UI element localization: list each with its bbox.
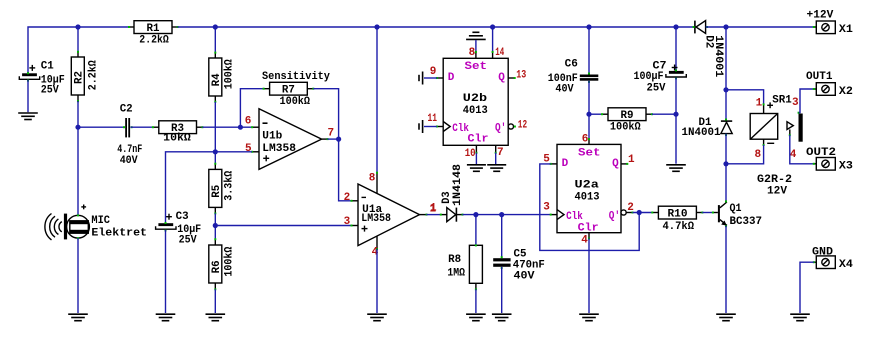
svg-text:12V: 12V [767, 186, 787, 198]
capacitor C3 [156, 211, 202, 247]
wire pin9 ground [424, 77, 437, 79]
svg-text:1MΩ: 1MΩ [447, 267, 465, 279]
svg-text:Clr: Clr [468, 134, 489, 146]
wire R6 to ground [214, 289, 216, 313]
wire U2b pin14 from rail [492, 27, 494, 52]
ground under Q1 [716, 314, 736, 321]
wire node to ground [675, 114, 677, 164]
svg-text:U1b: U1b [262, 131, 282, 143]
svg-text:6: 6 [582, 134, 589, 146]
ground under R6 [206, 314, 226, 321]
ground under C3 [156, 314, 176, 321]
svg-text:11: 11 [428, 113, 438, 125]
svg-text:R10: R10 [668, 208, 688, 220]
wire C6 to node [588, 81, 590, 115]
svg-text:X2: X2 [839, 86, 853, 98]
terminal X1 +12V [807, 10, 854, 36]
diode D2 [693, 21, 725, 78]
svg-text:G2R-2: G2R-2 [757, 174, 792, 186]
node rail-D2-relay branch [723, 24, 728, 29]
svg-text:25V: 25V [179, 234, 197, 246]
node D3/C5 [499, 212, 504, 217]
wire R5 to node [214, 213, 216, 239]
wire R3 to U1b pin6 (crosses R4-R5 column) [202, 126, 252, 128]
wire R4 top [214, 27, 216, 53]
wire top rail right segment [706, 26, 814, 28]
svg-text:100kΩ: 100kΩ [610, 122, 641, 134]
svg-text:MIC: MIC [91, 215, 110, 227]
svg-text:13: 13 [516, 69, 526, 81]
terminal X4 GND [812, 246, 853, 271]
svg-text:X1: X1 [839, 24, 853, 36]
svg-text:R8: R8 [448, 254, 461, 266]
resistor R3 [152, 121, 204, 145]
svg-text:R9: R9 [621, 110, 634, 122]
svg-text:8: 8 [469, 47, 476, 59]
wire U2b pin7 to ground [495, 153, 497, 164]
resistor R2 [71, 51, 99, 102]
node relay coil - / Q1 collector [723, 161, 728, 166]
diode D1 [682, 117, 733, 139]
transistor Q1 BC337 [712, 200, 762, 228]
wire D1 to node [725, 134, 727, 164]
ground under C7 [666, 165, 686, 172]
wire R4 bottom to R5 (crosses R3 wire) [214, 102, 216, 164]
wire top rail left segment [28, 27, 129, 73]
node relay coil + [723, 87, 728, 92]
svg-text:Set: Set [578, 147, 601, 159]
wire C3 to ground [165, 230, 167, 313]
svg-text:2: 2 [344, 192, 351, 204]
svg-text:4013: 4013 [463, 105, 488, 117]
svg-text:Sensitivity: Sensitivity [262, 71, 330, 83]
wire U2a pin4 Clr to ground (crosses feedback) [588, 238, 590, 313]
ground at U2b pin9 (rotated) [419, 72, 423, 85]
ground under U1a [367, 314, 387, 321]
svg-text:3: 3 [543, 201, 550, 213]
svg-text:U2b: U2b [463, 93, 488, 105]
svg-text:D: D [562, 158, 569, 170]
svg-text:C3: C3 [176, 211, 189, 223]
wire C7 to ground node [675, 78, 677, 115]
ground under MIC [68, 314, 88, 321]
ground under U2b pin7 [487, 165, 506, 172]
wire node to Q1 collector [725, 164, 727, 202]
wire node to U1a pin3 [215, 225, 351, 227]
svg-text:4013: 4013 [575, 191, 600, 203]
svg-text:R6: R6 [211, 260, 223, 273]
resistor R10 [651, 206, 703, 233]
svg-text:C6: C6 [565, 59, 578, 71]
svg-text:7: 7 [328, 127, 335, 139]
svg-text:6: 6 [245, 115, 252, 127]
svg-text:100kΩ: 100kΩ [223, 59, 235, 89]
wire node down to MIC [77, 127, 79, 215]
node C7/R9 ground [673, 112, 678, 117]
resistor R8 [447, 244, 482, 290]
ground under R8 [466, 314, 486, 321]
svg-text:Q: Q [612, 158, 619, 170]
svg-text:25V: 25V [647, 82, 666, 94]
wire feedback left leg [240, 89, 263, 128]
node C6/R9/Set [586, 112, 591, 117]
node R3/R7/U1b pin6 [238, 125, 243, 130]
svg-text:LM358: LM358 [361, 213, 391, 225]
ground under C5 [492, 314, 512, 321]
wire D3 to U2a pin3 [462, 214, 550, 216]
node U1b out/R7 [336, 137, 341, 142]
node D3/R8 [473, 212, 478, 217]
wire C1 to ground [27, 80, 29, 112]
wire R8 top [475, 215, 477, 246]
svg-text:X3: X3 [839, 161, 853, 173]
svg-text:U2a: U2a [575, 179, 600, 191]
svg-text:40V: 40V [514, 271, 535, 283]
resistor R9 [589, 108, 653, 134]
wire Q' to R10 [633, 212, 653, 214]
ground under U2b pin10 [467, 165, 486, 172]
terminal X3 OUT2 [806, 147, 853, 173]
wire C7 top [675, 27, 677, 71]
svg-text:Q': Q' [495, 123, 506, 135]
svg-text:40V: 40V [555, 84, 574, 96]
svg-text:C2: C2 [120, 103, 133, 115]
node R2/C2/MIC [75, 125, 80, 130]
svg-text:R2: R2 [73, 71, 85, 84]
svg-text:1N4001: 1N4001 [682, 127, 721, 139]
ground at U2b pin11 (rotated) [419, 120, 423, 133]
wire pin11 ground [424, 126, 437, 128]
svg-text:3.3kΩ: 3.3kΩ [223, 170, 235, 200]
resistor R4 [209, 52, 236, 103]
svg-text:Q1: Q1 [730, 203, 742, 215]
diode D3 [430, 164, 464, 222]
svg-text:100µF: 100µF [634, 71, 664, 83]
flip-flop U2b 4013 [428, 47, 528, 160]
svg-text:BC337: BC337 [730, 216, 763, 228]
svg-text:9: 9 [430, 66, 437, 78]
svg-text:8: 8 [369, 173, 376, 185]
node rail-U1a pin8 [374, 24, 379, 29]
wire C2 to R3 [130, 126, 153, 128]
resistor R6 [209, 238, 236, 290]
capacitor C6 [548, 59, 599, 96]
wire R10 to Q1 base [702, 212, 713, 214]
ground under X4 [790, 314, 810, 321]
flip-flop U2a 4013 [543, 134, 635, 247]
resistor R5 [209, 163, 236, 215]
svg-text:4: 4 [581, 235, 588, 247]
wire pin5 stub [215, 151, 252, 153]
microphone MIC Elektret [45, 205, 147, 240]
wire node to C2 [78, 126, 125, 128]
wire top rail middle segment [178, 26, 695, 28]
capacitor C2 [117, 103, 142, 166]
svg-text:14: 14 [495, 47, 504, 59]
relay wiper arrow pin4 [787, 112, 800, 137]
svg-text:R4: R4 [211, 73, 223, 86]
svg-text:2.2kΩ: 2.2kΩ [87, 60, 99, 90]
node divider tap U1a pin3 [213, 223, 218, 228]
wire feedback Q' to D [540, 164, 639, 251]
wire feedback right leg [313, 89, 338, 139]
svg-text:4.7kΩ: 4.7kΩ [663, 221, 695, 233]
svg-text:10kΩ: 10kΩ [163, 133, 191, 145]
svg-text:4: 4 [790, 149, 797, 161]
wire node to relay pin1 [726, 90, 764, 105]
node rail-R2 [75, 24, 80, 29]
wire node to U2a pin6 [588, 114, 590, 139]
wire U2b pin8 [475, 40, 477, 52]
wire U1b out down to U1a pin2 [339, 139, 352, 201]
svg-text:1N4001: 1N4001 [712, 35, 724, 77]
capacitor C1 [19, 60, 65, 96]
svg-text:D: D [448, 72, 455, 84]
svg-text:R5: R5 [211, 184, 223, 197]
wire U1b out to node [327, 138, 338, 140]
node rail-R4 [213, 24, 218, 29]
capacitor C5 [493, 248, 545, 282]
node rail-U2b pin14 [490, 24, 495, 29]
wire C5 top [501, 215, 503, 259]
svg-text:R7: R7 [282, 85, 295, 97]
wire R2 bottom to node [77, 101, 79, 127]
resistor R7 [263, 82, 315, 108]
svg-text:1: 1 [628, 154, 635, 166]
svg-text:100kΩ: 100kΩ [223, 246, 235, 276]
svg-text:8: 8 [755, 149, 762, 161]
wire R2 top [77, 27, 79, 52]
ground under U2a [579, 314, 599, 321]
terminal X2 OUT1 [806, 71, 853, 98]
svg-text:1: 1 [756, 98, 763, 110]
wire C6 top [588, 27, 590, 75]
svg-text:Elektret: Elektret [91, 227, 147, 239]
wire U1a out to D3 [426, 214, 440, 216]
svg-text:12: 12 [518, 120, 527, 132]
wire Q1 emitter to ground [725, 226, 727, 313]
wire MIC to ground [77, 238, 79, 313]
wire R8 to ground [475, 289, 477, 313]
ground above U2b pin8 (inverted) [466, 32, 486, 39]
op-amp U1a [344, 172, 437, 259]
svg-text:SR1: SR1 [772, 94, 792, 106]
svg-text:100kΩ: 100kΩ [280, 96, 311, 108]
svg-text:2.2kΩ: 2.2kΩ [139, 35, 169, 47]
svg-text:Q': Q' [609, 211, 620, 223]
wire C5 to ground [501, 267, 503, 313]
svg-text:Set: Set [465, 61, 488, 73]
svg-text:3: 3 [344, 216, 351, 228]
node divider tap U1b pin5 [213, 149, 218, 154]
wire U2b pin10 to ground [475, 153, 477, 164]
svg-text:+12V: +12V [807, 10, 834, 22]
svg-text:OUT1: OUT1 [806, 71, 833, 83]
wire U1a pin4 to ground [376, 249, 378, 313]
wire pin3 to X2 [799, 89, 814, 113]
wire D2/relay branch down [725, 27, 727, 120]
wire X4 to ground [800, 262, 814, 313]
svg-text:40V: 40V [120, 155, 138, 167]
wire R9 to C7 ground column [652, 113, 676, 115]
svg-text:1N4148: 1N4148 [452, 164, 464, 206]
ground under C1 [18, 113, 38, 120]
svg-text:R1: R1 [147, 23, 160, 35]
svg-text:10: 10 [465, 148, 476, 160]
wire tap to C3 [166, 152, 216, 223]
svg-text:3: 3 [792, 97, 799, 109]
svg-text:C1: C1 [41, 60, 54, 72]
node rail-C7 [673, 24, 678, 29]
svg-text:1: 1 [430, 203, 437, 215]
node rail-C6 [586, 24, 591, 29]
wire relay pin8 to node [726, 145, 764, 164]
svg-text:7: 7 [497, 147, 504, 159]
svg-text:5: 5 [245, 143, 252, 155]
svg-text:Clr: Clr [578, 223, 599, 235]
resistor R1 [128, 21, 179, 47]
svg-text:LM358: LM358 [262, 143, 296, 155]
wire U1a pin8 from rail [376, 27, 378, 173]
relay SR1 coil [750, 94, 799, 197]
relay contact blade [799, 114, 803, 142]
op-amp U1b [245, 109, 334, 170]
svg-text:Clk: Clk [566, 211, 583, 223]
svg-text:X4: X4 [839, 259, 853, 271]
wire pin4 to X3 [790, 135, 814, 164]
svg-text:25V: 25V [41, 85, 59, 97]
svg-text:Q: Q [498, 72, 505, 84]
capacitor C7 [634, 60, 687, 94]
svg-text:Clk: Clk [452, 123, 469, 135]
node U2a Q' [637, 210, 642, 215]
